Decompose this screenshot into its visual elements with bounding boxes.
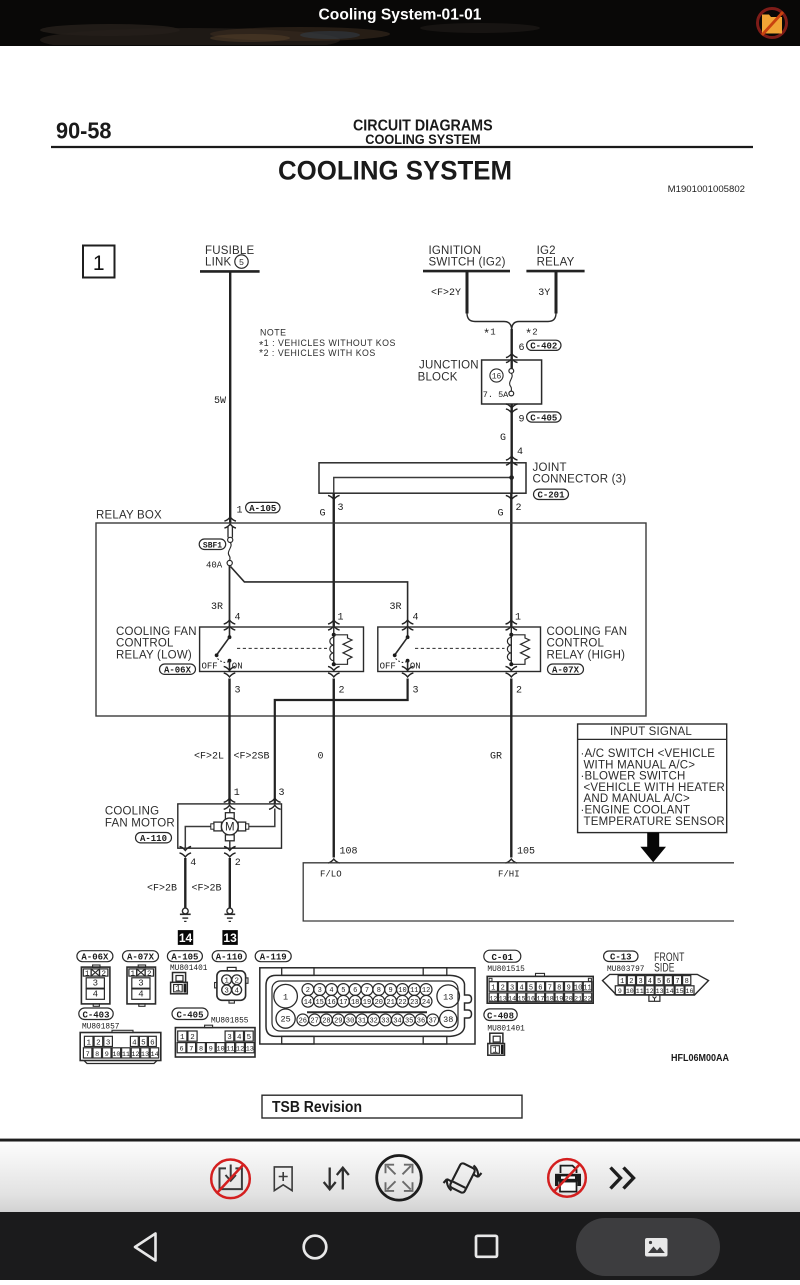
svg-text:8: 8 <box>557 984 561 992</box>
svg-text:11: 11 <box>122 1051 130 1059</box>
svg-text:21: 21 <box>574 995 582 1002</box>
svg-text:A-07X: A-07X <box>127 953 155 963</box>
header rule <box>51 146 753 148</box>
arrow into fan terminal F/HI <box>506 859 518 863</box>
connector A-110 oval label <box>136 833 172 845</box>
svg-text:<F>2Y: <F>2Y <box>431 288 461 299</box>
svg-text:2: 2 <box>147 970 152 978</box>
svg-text:FAN MOTOR: FAN MOTOR <box>105 817 175 829</box>
relay high dashed actuation line <box>415 647 505 649</box>
svg-text:9: 9 <box>105 1051 109 1059</box>
svg-text:1: 1 <box>620 978 624 986</box>
svg-text:FUSIBLE: FUSIBLE <box>205 245 254 257</box>
svg-text:2: 2 <box>339 686 345 697</box>
svg-text:4: 4 <box>413 613 419 624</box>
svg-text:A-06X: A-06X <box>81 953 109 963</box>
merge bracket of 2Y and 3Y wires <box>467 313 556 330</box>
svg-text:3: 3 <box>93 979 98 989</box>
svg-text:IG2: IG2 <box>537 245 556 257</box>
connector C-405 pinout drawing <box>175 1025 255 1057</box>
ignition switch bus bar <box>423 270 510 273</box>
cooling fan control relay high outline <box>378 627 541 672</box>
svg-text:12: 12 <box>422 987 430 995</box>
connector A-06X pinout drawing <box>81 965 110 1006</box>
arrows out of motor <box>180 846 192 850</box>
svg-text:1: 1 <box>491 984 495 992</box>
svg-text:1: 1 <box>283 992 288 1002</box>
motor internal wires <box>185 809 274 849</box>
svg-text:11: 11 <box>636 988 644 995</box>
svg-text:2: 2 <box>234 978 239 986</box>
svg-text:16: 16 <box>527 995 535 1002</box>
cooling fan motor M symbol <box>211 813 249 841</box>
svg-text:1: 1 <box>234 788 240 799</box>
wire through joint connector right <box>510 463 512 493</box>
input signal title rule <box>578 738 727 740</box>
connector C-01 oval title <box>484 950 521 963</box>
svg-text:33: 33 <box>381 1018 389 1026</box>
connector A-119 oval title <box>255 951 291 963</box>
relay high coil with parallel resistor <box>507 627 529 666</box>
svg-text:6: 6 <box>353 987 357 995</box>
connector A-06X oval <box>160 664 196 676</box>
toolbar icon print disabled <box>548 1159 586 1197</box>
svg-text:25: 25 <box>280 1015 290 1025</box>
joint connector internal bus wire <box>334 478 512 494</box>
connector A-110 oval title <box>212 951 246 963</box>
input signal text <box>581 748 726 828</box>
svg-text:3: 3 <box>413 686 419 697</box>
toolbar icon rotate device <box>444 1162 482 1193</box>
wire 0 relay low coil to F/LO <box>333 679 335 858</box>
svg-text:6: 6 <box>666 978 670 986</box>
connector A-105 oval title <box>167 951 202 963</box>
svg-text:5: 5 <box>657 978 661 986</box>
svg-text:14: 14 <box>508 995 516 1002</box>
toolbar icon more chevrons <box>611 1168 634 1189</box>
junction block outline <box>482 360 542 404</box>
svg-text:5: 5 <box>247 1034 252 1042</box>
svg-text:3: 3 <box>510 984 514 992</box>
relay low switch <box>215 627 232 672</box>
svg-text:40A: 40A <box>206 561 223 571</box>
wire G joint connector to relay low coil <box>333 493 335 627</box>
svg-text:3: 3 <box>338 503 344 514</box>
svg-text:7. 5A: 7. 5A <box>483 390 509 400</box>
svg-text:1: 1 <box>175 984 180 994</box>
svg-text:<F>2SB: <F>2SB <box>234 752 270 763</box>
svg-text:12: 12 <box>131 1051 139 1059</box>
fuse number circled 16 <box>490 369 503 382</box>
svg-text:SIDE: SIDE <box>654 963 675 975</box>
svg-text:C-403: C-403 <box>82 1011 109 1021</box>
connector A-110 pinout drawing <box>215 967 248 1003</box>
connector C-408 oval title <box>484 1009 517 1022</box>
svg-text:IGNITION: IGNITION <box>429 245 482 257</box>
arrows out of relay high <box>402 666 414 670</box>
svg-text:1: 1 <box>492 1046 497 1056</box>
arrow pair into junction block <box>506 354 518 358</box>
svg-text:8: 8 <box>377 987 381 995</box>
svg-text:8: 8 <box>685 978 689 986</box>
svg-text:6: 6 <box>519 343 525 354</box>
svg-text:LINK: LINK <box>205 257 231 269</box>
svg-text:C-405: C-405 <box>176 1011 203 1021</box>
toolbar icon download disabled <box>211 1160 250 1199</box>
svg-text:3: 3 <box>138 979 143 989</box>
svg-text:1: 1 <box>515 613 521 624</box>
svg-text:16: 16 <box>327 999 335 1007</box>
svg-text:5W: 5W <box>214 396 226 407</box>
svg-text:<F>2L: <F>2L <box>194 752 224 763</box>
cooling fan motor label <box>105 806 175 830</box>
svg-text:RELAY: RELAY <box>537 257 575 269</box>
svg-text:27: 27 <box>310 1018 318 1026</box>
input signal arrow <box>640 833 666 863</box>
svg-text:22: 22 <box>584 995 592 1002</box>
svg-text:11: 11 <box>410 987 418 995</box>
svg-text:A-105: A-105 <box>171 953 198 963</box>
svg-text:38: 38 <box>443 1015 453 1025</box>
svg-text:GR: GR <box>490 752 502 763</box>
svg-text:13: 13 <box>246 1046 254 1054</box>
svg-text:INPUT SIGNAL: INPUT SIGNAL <box>610 726 692 738</box>
svg-text:34: 34 <box>393 1018 401 1026</box>
connector C-405 oval <box>527 412 561 423</box>
connector C-01 pinout drawing <box>487 973 593 1003</box>
svg-text:31: 31 <box>358 1018 366 1026</box>
connector A-119 pinout drawing <box>260 968 475 1044</box>
wire G joint connector to relay high coil <box>510 493 512 627</box>
svg-text:C-01: C-01 <box>491 953 513 963</box>
svg-text:CONNECTOR (3): CONNECTOR (3) <box>533 474 627 486</box>
connector C-402 <box>527 340 561 351</box>
joint connector 3 outline <box>319 463 526 493</box>
svg-text:3R: 3R <box>211 602 223 613</box>
android navigation bar background <box>0 1212 800 1280</box>
svg-text:32: 32 <box>369 1018 377 1026</box>
front side label <box>654 952 685 975</box>
svg-text:WITH MANUAL A/C>: WITH MANUAL A/C> <box>584 759 696 771</box>
svg-text:23: 23 <box>410 999 418 1007</box>
svg-text:·BLOWER SWITCH: ·BLOWER SWITCH <box>581 771 686 783</box>
svg-text:·A/C SWITCH <VEHICLE: ·A/C SWITCH <VEHICLE <box>581 748 716 760</box>
svg-text:3: 3 <box>279 788 285 799</box>
arrow pair into joint connector <box>506 456 518 460</box>
svg-text:1: 1 <box>338 613 344 624</box>
svg-text:19: 19 <box>555 995 563 1002</box>
svg-text:1: 1 <box>131 970 136 978</box>
svg-text:RELAY (LOW): RELAY (LOW) <box>116 649 192 661</box>
wire 2SB relay high to motor pin 3 <box>275 679 408 804</box>
top app bar background <box>0 0 800 46</box>
svg-text:OFF: OFF <box>380 661 396 671</box>
ig2 relay bus bar <box>526 270 584 273</box>
svg-text:15: 15 <box>518 995 526 1002</box>
ground 14 <box>180 908 191 921</box>
wire 3R to relay low pin 4 <box>229 566 231 628</box>
ground reference number 13 <box>222 930 237 945</box>
svg-text:14: 14 <box>179 931 193 945</box>
svg-text:15: 15 <box>315 999 323 1007</box>
svg-text:4: 4 <box>648 978 652 986</box>
fusible link SBF1 symbol <box>227 527 233 566</box>
svg-text:28: 28 <box>322 1018 330 1026</box>
svg-text:C-13: C-13 <box>610 953 632 963</box>
wire 3Y from IG2 relay <box>555 271 558 313</box>
relay high switch <box>393 627 410 672</box>
svg-text:0: 0 <box>318 752 324 763</box>
relay box outline <box>96 523 646 716</box>
svg-text:G: G <box>498 509 504 520</box>
arrow pair out of junction block <box>506 404 518 408</box>
wire branch to relay high pin 4 <box>231 567 408 628</box>
svg-text:4: 4 <box>517 447 523 458</box>
svg-text:7: 7 <box>86 1051 90 1059</box>
svg-text:7: 7 <box>365 987 369 995</box>
connector C-201 oval <box>534 489 569 501</box>
toolbar top border <box>0 1139 800 1142</box>
toolbar background <box>0 1142 800 1212</box>
svg-text:21: 21 <box>386 999 394 1007</box>
svg-text:10: 10 <box>398 987 406 995</box>
svg-text:1: 1 <box>93 252 105 275</box>
svg-text:3: 3 <box>227 1034 232 1042</box>
svg-text:MU803797: MU803797 <box>607 966 645 974</box>
svg-text:20: 20 <box>565 995 573 1002</box>
connector C-403 oval title <box>79 1008 113 1021</box>
svg-text:6: 6 <box>150 1039 155 1047</box>
svg-text:3: 3 <box>224 988 229 996</box>
svg-text:2: 2 <box>306 987 310 995</box>
ground 13 <box>224 908 235 921</box>
svg-text:2: 2 <box>96 1039 101 1047</box>
junction block label <box>418 360 479 384</box>
SBF1 oval label <box>199 539 226 551</box>
svg-text:3R: 3R <box>390 602 402 613</box>
svg-text:17: 17 <box>536 995 544 1002</box>
svg-text:A-119: A-119 <box>260 953 287 963</box>
svg-text:2: 2 <box>501 984 505 992</box>
arrow into fan terminal F/LO <box>328 859 340 863</box>
svg-text:M1901001005802: M1901001005802 <box>668 184 745 195</box>
fan control terminal box F/LO F/HI <box>303 863 734 921</box>
svg-text:RELAY BOX: RELAY BOX <box>96 510 162 522</box>
connector A-06X oval title <box>77 951 113 963</box>
svg-text:4: 4 <box>235 613 241 624</box>
relay low dashed actuation line <box>237 647 327 649</box>
svg-text:SWITCH (IG2): SWITCH (IG2) <box>429 257 506 269</box>
wire 5W fusible link to A-105 <box>229 271 231 523</box>
svg-text:3Y: 3Y <box>538 288 550 299</box>
svg-text:12: 12 <box>646 988 654 995</box>
svg-text:7: 7 <box>675 978 679 986</box>
svg-text:90-58: 90-58 <box>56 118 112 144</box>
svg-text:SBF1: SBF1 <box>203 542 222 551</box>
nav home button <box>304 1236 327 1259</box>
svg-text:1: 1 <box>85 970 90 978</box>
arrow pairs into relay high <box>402 620 414 624</box>
connector C-405 oval title <box>172 1008 208 1021</box>
svg-text:3: 3 <box>106 1039 111 1047</box>
svg-text:2: 2 <box>629 978 633 986</box>
svg-text:35: 35 <box>405 1018 413 1026</box>
fusible link 5 label <box>205 245 254 269</box>
cooling fan control relay low outline <box>200 627 364 672</box>
svg-text:9: 9 <box>209 1046 213 1054</box>
svg-text:JOINT: JOINT <box>533 462 567 474</box>
svg-text:C-201: C-201 <box>537 491 565 501</box>
connector C-408 pinout drawing <box>488 1033 505 1055</box>
svg-text:CONTROL: CONTROL <box>116 638 174 650</box>
svg-text:2: 2 <box>101 970 106 978</box>
svg-text:C-405: C-405 <box>530 413 557 423</box>
toolbar icon sort up down <box>324 1168 349 1190</box>
connector A-105 pinout drawing <box>171 973 188 995</box>
svg-text:4: 4 <box>234 988 239 996</box>
svg-text:8: 8 <box>199 1046 203 1054</box>
svg-text:AND MANUAL A/C>: AND MANUAL A/C> <box>584 793 691 805</box>
ground reference number 14 <box>178 930 193 945</box>
svg-text:18: 18 <box>351 999 359 1007</box>
svg-text:15: 15 <box>676 988 684 995</box>
svg-text:<VEHICLE WITH HEATER: <VEHICLE WITH HEATER <box>584 782 726 794</box>
connector C-403 pinout drawing <box>80 1030 161 1063</box>
nav recent apps pill <box>576 1218 720 1276</box>
svg-text:JUNCTION: JUNCTION <box>419 360 479 372</box>
svg-text:10: 10 <box>112 1051 120 1059</box>
svg-text:TSB Revision: TSB Revision <box>272 1099 362 1116</box>
svg-text:13: 13 <box>656 988 664 995</box>
wire G junction block to joint connector <box>511 404 513 463</box>
input signal box outline <box>578 724 727 833</box>
svg-text:OFF: OFF <box>202 661 218 671</box>
top bar app icon - folder with red prohibition circle <box>758 9 787 38</box>
svg-text:<F>2B: <F>2B <box>147 884 177 895</box>
svg-text:Cooling System-01-01: Cooling System-01-01 <box>319 7 482 24</box>
svg-text:9: 9 <box>567 984 571 992</box>
svg-text:A-110: A-110 <box>140 834 167 844</box>
svg-text:MU801855: MU801855 <box>211 1018 249 1026</box>
svg-text:MU801401: MU801401 <box>487 1026 525 1034</box>
svg-text:20: 20 <box>375 999 383 1007</box>
fusible link bus bar <box>200 270 260 273</box>
cooling fan motor box outline <box>178 804 282 848</box>
svg-text:13: 13 <box>223 931 237 945</box>
svg-text:1: 1 <box>224 978 229 986</box>
junction dot in joint connector <box>509 475 514 480</box>
svg-text:1: 1 <box>180 1034 185 1042</box>
svg-text:8: 8 <box>95 1051 99 1059</box>
svg-text:C-402: C-402 <box>530 342 557 352</box>
svg-text:12: 12 <box>489 995 497 1002</box>
svg-text:2: 2 <box>516 686 522 697</box>
nav back button <box>135 1234 156 1261</box>
svg-text:C-408: C-408 <box>487 1011 514 1021</box>
svg-text:*2 : VEHICLES WITH KOS: *2 : VEHICLES WITH KOS <box>259 347 376 359</box>
svg-text:16: 16 <box>686 988 694 995</box>
svg-text:MU801515: MU801515 <box>487 966 525 974</box>
svg-text:19: 19 <box>363 999 371 1007</box>
arrows out of relay low <box>224 666 236 670</box>
svg-text:36: 36 <box>417 1018 425 1026</box>
svg-text:2: 2 <box>516 503 522 514</box>
relay low label <box>116 626 197 661</box>
connector A-105 oval <box>246 502 280 514</box>
svg-text:26: 26 <box>299 1018 307 1026</box>
svg-text:1: 1 <box>86 1039 91 1047</box>
svg-text:A-110: A-110 <box>216 953 243 963</box>
arrow pair into relay box A-105 <box>224 517 236 521</box>
svg-text:6: 6 <box>180 1046 184 1054</box>
svg-text:3: 3 <box>318 987 322 995</box>
svg-text:7: 7 <box>189 1046 193 1054</box>
svg-text:14: 14 <box>151 1051 159 1059</box>
svg-text:14: 14 <box>666 988 674 995</box>
svg-text:5: 5 <box>341 987 345 995</box>
svg-text:18: 18 <box>546 995 554 1002</box>
svg-text:F/LO: F/LO <box>320 870 342 880</box>
svg-text:12: 12 <box>236 1046 244 1054</box>
svg-text:5: 5 <box>529 984 533 992</box>
svg-text:3: 3 <box>638 978 642 986</box>
wire GR relay high coil to F/HI <box>510 679 512 858</box>
svg-text:9: 9 <box>618 988 622 995</box>
svg-text:G: G <box>320 509 326 520</box>
svg-text:A-105: A-105 <box>249 504 276 514</box>
svg-text:22: 22 <box>398 999 406 1007</box>
svg-text:9: 9 <box>519 415 525 426</box>
svg-text:4: 4 <box>519 984 523 992</box>
svg-text:4: 4 <box>190 858 196 869</box>
svg-text:13: 13 <box>499 995 507 1002</box>
svg-text:COOLING FAN: COOLING FAN <box>116 626 197 638</box>
ig2 relay label <box>537 245 575 269</box>
svg-text:6: 6 <box>538 984 542 992</box>
svg-text:9: 9 <box>388 987 392 995</box>
svg-text:·ENGINE COOLANT: ·ENGINE COOLANT <box>581 805 691 817</box>
nav overview button <box>476 1236 497 1257</box>
svg-text:11: 11 <box>583 984 591 992</box>
relay low coil with parallel resistor <box>330 627 352 666</box>
fuse 7.5A symbol <box>509 369 514 396</box>
connector A-07X oval <box>548 664 584 676</box>
connector C-13 oval title <box>604 951 638 963</box>
svg-text:10: 10 <box>574 984 582 992</box>
svg-text:10: 10 <box>626 988 634 995</box>
svg-text:29: 29 <box>334 1018 342 1026</box>
toolbar icon add bookmark <box>274 1167 292 1191</box>
svg-text:13: 13 <box>141 1051 149 1059</box>
svg-text:4: 4 <box>132 1039 137 1047</box>
svg-text:COOLING FAN: COOLING FAN <box>547 626 628 638</box>
svg-text:1: 1 <box>237 506 243 517</box>
svg-text:16: 16 <box>492 373 502 382</box>
svg-text:30: 30 <box>346 1018 354 1026</box>
connector C-13 pinout drawing <box>603 974 709 1001</box>
svg-text:COOLING: COOLING <box>105 806 159 818</box>
arrow pairs into relay low <box>224 620 236 624</box>
svg-text:14: 14 <box>304 999 312 1007</box>
wire 2Y from ignition switch <box>466 271 469 313</box>
joint connector label <box>533 462 627 486</box>
arrow out of joint connector left <box>328 495 340 499</box>
svg-text:A-06X: A-06X <box>164 666 192 676</box>
arrow out of joint connector right <box>506 495 518 499</box>
svg-text:7: 7 <box>548 984 552 992</box>
svg-text:G: G <box>500 433 506 444</box>
sheet number box 1 <box>83 246 115 278</box>
